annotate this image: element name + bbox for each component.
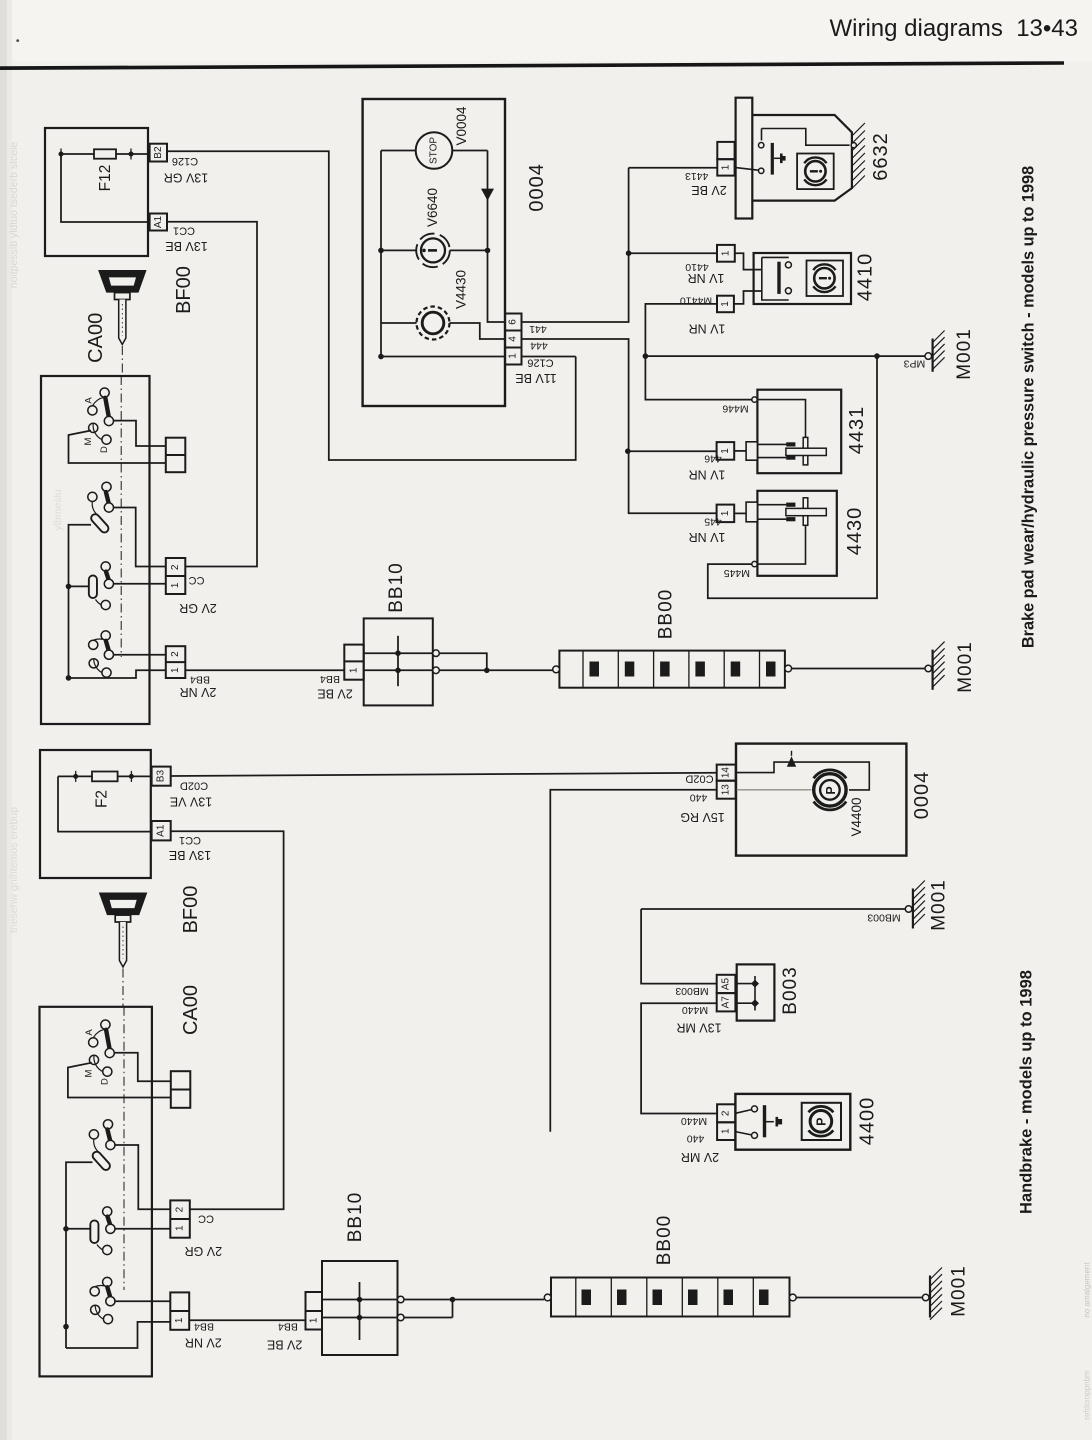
svg-text:Wiring diagrams 13•43: Wiring diagrams 13•43 [829, 15, 1078, 42]
net label BB4 / 2V BE [317, 673, 352, 701]
key axis dash-dot [121, 346, 122, 657]
svg-text:1: 1 [720, 250, 731, 256]
svg-text:444: 444 [530, 339, 548, 351]
stop-lamp switch 6632 [735, 98, 852, 219]
svg-text:C126: C126 [527, 357, 553, 369]
wire 6632 to junction (4413 2V BE) [629, 167, 718, 169]
svg-text:2: 2 [170, 651, 181, 657]
connector BB4 on CA00 bottom [170, 1292, 189, 1329]
net label M4410 / 1V NR [680, 294, 726, 335]
header rule [0, 61, 1064, 70]
svg-text:CC: CC [198, 1212, 214, 1224]
svg-text:A1: A1 [156, 824, 167, 837]
handbrake switch 4400 [735, 1094, 878, 1150]
svg-text:M440: M440 [682, 1004, 708, 1016]
net label BB4 / 2V NR [180, 673, 217, 699]
diode [488, 151, 506, 323]
faint wire pin13 to lamp [736, 789, 812, 791]
connector pins 14/13 of 0004 (bottom) [717, 765, 736, 799]
wire A7 down to 4400 pin2 (M440) [641, 1003, 717, 1113]
svg-text:C02D: C02D [180, 780, 208, 792]
contact wafer 1 [83, 388, 114, 453]
wire pin4 down to pad sensors (444) [522, 339, 629, 513]
wire pin6 to 6632 (441) [522, 168, 629, 322]
bottom internal wire to pin 1 [381, 356, 505, 358]
svg-text:F2: F2 [94, 790, 111, 808]
svg-text:6632: 6632 [870, 132, 892, 181]
svg-text:D: D [100, 1078, 111, 1085]
svg-text:0004: 0004 [911, 771, 933, 820]
svg-text:MP3: MP3 [904, 357, 926, 369]
svg-text:BB4: BB4 [320, 673, 340, 685]
net label 445 / 1V NR [689, 515, 726, 544]
svg-text:A5: A5 [721, 977, 732, 990]
net label C02D / 13V VE [170, 780, 212, 809]
svg-text:M001: M001 [949, 1265, 970, 1317]
svg-text:4430: 4430 [844, 507, 866, 556]
svg-text:0004: 0004 [526, 163, 548, 212]
internal bus [380, 151, 382, 357]
svg-text:A: A [84, 1029, 95, 1036]
ignition switch CA00 (top) [41, 376, 166, 724]
svg-text:CC1: CC1 [173, 225, 195, 237]
fuse box F12 [45, 128, 150, 256]
svg-text:Handbrake - models up to 1998: Handbrake - models up to 1998 [1018, 970, 1036, 1214]
svg-text:14: 14 [721, 767, 732, 779]
svg-text:M446: M446 [722, 403, 748, 415]
ground M001 (top right, lower) [925, 641, 976, 693]
svg-text:2V GR: 2V GR [185, 1244, 223, 1258]
connector pins 2/1 of 4400 [717, 1104, 735, 1140]
svg-text:CA00: CA00 [85, 313, 107, 363]
connector pin A1 of F12 [150, 214, 167, 231]
svg-text:M001: M001 [954, 328, 975, 380]
contact wafer 4 [90, 1277, 115, 1323]
svg-text:2: 2 [175, 1206, 186, 1212]
svg-text:BB4: BB4 [194, 1321, 214, 1333]
wire pin1 (C126 11V BE) [522, 356, 576, 358]
svg-text:C02D: C02D [685, 772, 713, 784]
svg-text:13V MR: 13V MR [676, 1021, 721, 1035]
svg-text:A1: A1 [153, 215, 164, 228]
wafer4 wires [114, 654, 166, 656]
svg-text:1: 1 [170, 582, 181, 588]
svg-text:13V BE: 13V BE [169, 848, 211, 862]
net label BB4 / 2V NR (bottom) [185, 1321, 222, 1350]
contact wafer 3 [93, 562, 114, 610]
wire BB4 from CA00 to BB10 (2V BE) [185, 669, 344, 671]
svg-text:M440: M440 [681, 1115, 707, 1127]
svg-text:CC1: CC1 [179, 834, 201, 846]
svg-text:1: 1 [174, 1317, 185, 1323]
junction box BB10 (bottom) [306, 1192, 405, 1355]
wire M446 [645, 356, 751, 400]
svg-text:2V MR: 2V MR [681, 1150, 719, 1164]
svg-text:1V NR: 1V NR [689, 530, 726, 544]
net labels C02D / 440 / 15V RG [680, 772, 724, 824]
contact wafer 2 [88, 482, 114, 528]
net labels M440 / 440 / 2V MR [681, 1115, 719, 1164]
connector pin B3 of F2 [152, 767, 171, 786]
svg-text:P: P [815, 1118, 829, 1126]
svg-text:tnesehw gnihtemos erebup: tnesehw gnihtemos erebup [8, 807, 20, 933]
wire junction to 4410 [629, 252, 717, 254]
svg-text:BB4: BB4 [278, 1320, 298, 1332]
net label 4410 / 1V NR [685, 261, 724, 285]
wafer3 wire [114, 1228, 170, 1230]
svg-text:B003: B003 [780, 966, 801, 1014]
svg-text:A: A [83, 397, 94, 404]
wafer2 wire to CC [114, 508, 166, 567]
instrument cluster 0004 (bottom) [736, 744, 933, 856]
svg-text:CC: CC [189, 574, 205, 586]
svg-text:1: 1 [349, 667, 360, 673]
svg-text:1V NR: 1V NR [689, 321, 726, 335]
warning lamp V4430 [381, 322, 417, 324]
svg-text:B2: B2 [153, 146, 164, 159]
svg-text:M001: M001 [928, 879, 949, 931]
net label CC / 2V GR [179, 574, 217, 615]
junction strip BB00 (top) [553, 589, 792, 688]
connector (unlabelled) on CA00 [166, 438, 186, 473]
svg-text:2: 2 [721, 1110, 732, 1116]
svg-text:1: 1 [308, 1317, 319, 1323]
svg-text:M: M [83, 437, 94, 445]
lamp V0004 (STOP) [416, 132, 453, 169]
wire A1 to ignition switch CC (13V BE) [167, 222, 257, 567]
internal wire with diode to V4400 [736, 762, 870, 790]
svg-text:1: 1 [720, 301, 731, 307]
svg-text:refdcroppnbm: refdcroppnbm [1083, 1370, 1092, 1420]
wire BB10 to BB00 (bottom) [404, 1299, 544, 1301]
connector B003 [717, 964, 801, 1020]
svg-text:C126: C126 [172, 155, 198, 167]
ignition key BF00 (bottom) [99, 893, 148, 968]
contact wafer 2 [89, 1120, 115, 1166]
contact wafer 4 [89, 631, 114, 677]
svg-text:D: D [99, 446, 110, 453]
svg-text:2V BE: 2V BE [267, 1338, 302, 1352]
svg-text:V4400: V4400 [849, 797, 864, 836]
svg-text:M001: M001 [955, 641, 976, 693]
svg-text:P: P [824, 786, 838, 794]
wire pin13 to 4400 pin1 (440 15V RG) [550, 790, 716, 1132]
svg-text:15V RG: 15V RG [680, 810, 724, 824]
svg-text:BF00: BF00 [173, 266, 195, 314]
svg-text:no amalgement: no amalgement [1083, 1262, 1092, 1318]
fuse box F2 [40, 750, 152, 878]
connector BB4 on CA00 [166, 646, 186, 678]
net label CC / 2V GR (bottom) [185, 1212, 223, 1258]
svg-text:440: 440 [690, 792, 708, 804]
svg-text:1V NR: 1V NR [689, 468, 726, 482]
connector pin 446 of 4431 [717, 442, 735, 460]
svg-text:4413: 4413 [685, 170, 709, 182]
wire BB10 to BB00 (top) [439, 653, 487, 670]
warning lamp V6640 [381, 249, 416, 251]
ground M001 (MB003) [905, 879, 949, 931]
wire B2 to 0004 pin 1 (13V GR) [167, 151, 576, 460]
wire to ground MB003 [641, 908, 905, 910]
wafer1 wires to connector [114, 1053, 171, 1081]
internal bus wire [69, 525, 92, 678]
connector pin 445 of 4430 [717, 505, 735, 522]
internal bus wire [66, 1162, 93, 1348]
ignition switch CA00 (bottom) [40, 1007, 171, 1377]
connector (unlabelled) on CA00 bottom [171, 1071, 191, 1108]
svg-text:1: 1 [175, 1225, 186, 1231]
ground M001 (top right, upper) [925, 328, 975, 380]
wire B3 to 0004 pin 14 (C02D) [171, 773, 717, 776]
wire BB00 to ground M001 (bottom) [796, 1297, 922, 1299]
svg-text:MB003: MB003 [675, 985, 708, 997]
net label BB4 / 2V BE (bottom) [267, 1320, 302, 1351]
svg-text:V4430: V4430 [454, 270, 469, 309]
junction strip BB00 (bottom) [544, 1215, 796, 1317]
connector pin M4410 (bottom) [717, 296, 734, 313]
svg-text:V6640: V6640 [425, 188, 440, 227]
chassis attachment of 6632 [851, 123, 865, 189]
svg-text:4: 4 [508, 336, 519, 342]
svg-text:1: 1 [720, 164, 731, 170]
net labels 441 / 444 / C126 / 11V BE [515, 323, 556, 385]
svg-text:1: 1 [508, 353, 519, 359]
connector CC on CA00 bottom [170, 1200, 190, 1237]
wafer4 wires [114, 1300, 170, 1302]
svg-text:2V BE: 2V BE [691, 183, 726, 197]
svg-text:13V BE: 13V BE [165, 239, 207, 253]
wire M4410 to ground bus [645, 304, 717, 356]
svg-text:ylbmeslu: ylbmeslu [52, 489, 64, 531]
wafer3 wire [114, 583, 166, 585]
svg-text:440: 440 [687, 1133, 705, 1145]
wire M445 return to ground bus [708, 356, 877, 598]
svg-text:4400: 4400 [857, 1097, 879, 1146]
pad wear sensor 4431 [746, 390, 868, 474]
svg-text:1V NR: 1V NR [688, 271, 725, 285]
svg-text:6: 6 [508, 319, 519, 325]
wire 445 [628, 512, 717, 514]
svg-text:A7: A7 [721, 996, 732, 1009]
svg-text:CA00: CA00 [180, 985, 202, 1035]
connector pin B2 of F12 [150, 144, 167, 162]
net labels MB003 / M440 / 13V MR [675, 985, 721, 1035]
svg-text:B3: B3 [156, 770, 167, 783]
pad wear sensor 4430 [746, 491, 866, 576]
svg-text:445: 445 [704, 515, 722, 527]
svg-text:2V NR: 2V NR [185, 1336, 222, 1350]
wire ground bus down to B003 A5 [641, 909, 717, 984]
svg-text:11V BE: 11V BE [515, 371, 556, 385]
connector pin of 6632 [717, 142, 734, 176]
svg-text:BB00: BB00 [654, 1215, 675, 1265]
svg-text:STOP: STOP [429, 137, 440, 164]
contact wafer 1 [84, 1020, 115, 1085]
svg-text:2V BE: 2V BE [317, 687, 352, 701]
ground bus wire MP3 to M001 [645, 355, 924, 357]
svg-text:1: 1 [720, 510, 731, 516]
svg-text:Brake pad wear/hydraulic press: Brake pad wear/hydraulic pressure switch… [1020, 166, 1038, 648]
wire A1 to ignition switch CC (13V BE, bottom) [171, 831, 284, 1209]
svg-text:446: 446 [704, 452, 722, 464]
connector pins 6/4/1 of 0004 [505, 314, 522, 365]
ignition key BF00 (top) [98, 270, 147, 345]
svg-text:13V VE: 13V VE [170, 795, 212, 809]
instrument cluster 0004 (top) [363, 99, 548, 406]
svg-text:BF00: BF00 [180, 886, 202, 934]
wire 446 [628, 450, 717, 452]
svg-text:13: 13 [721, 784, 732, 796]
svg-text:BB00: BB00 [656, 589, 677, 639]
svg-text:2V NR: 2V NR [180, 685, 217, 699]
svg-text:BB10: BB10 [345, 1192, 366, 1242]
svg-text:2V GR: 2V GR [179, 601, 217, 615]
brake fluid switch 4410 [754, 253, 851, 304]
svg-text:2: 2 [170, 564, 181, 570]
net label CC1 / 13V BE [165, 225, 207, 254]
wire BB4 to BB10 (bottom, 2V BE) [189, 1319, 305, 1321]
net label CC1 / 13V BE [169, 834, 211, 862]
ground M001 (bottom) [922, 1265, 969, 1319]
svg-text:BB4: BB4 [190, 673, 210, 685]
svg-text:noitpessib yldtuo tsederb stce: noitpessib yldtuo tsederb stceie [8, 142, 20, 289]
junction box BB10 (top) [344, 562, 439, 705]
contact wafer 3 [94, 1207, 115, 1255]
connector CC on CA00 [166, 558, 186, 594]
svg-text:4410: 4410 [855, 253, 877, 302]
connector pin 4410 (top) [717, 245, 735, 262]
svg-text:V0004: V0004 [454, 106, 469, 146]
wafer2 wire to CC [114, 1145, 170, 1209]
net label C126 / 13V GR [164, 155, 208, 185]
handbrake warning lamp V4400 [814, 774, 846, 806]
key axis dash-dot (bottom) [123, 969, 124, 1291]
svg-text:MB003: MB003 [867, 912, 900, 924]
net label 446 / 1V NR [689, 452, 726, 481]
svg-text:1: 1 [721, 1128, 732, 1134]
svg-text:4431: 4431 [846, 406, 868, 455]
svg-text:1: 1 [170, 667, 181, 673]
svg-text:F12: F12 [97, 165, 114, 192]
svg-text:13V GR: 13V GR [164, 171, 208, 185]
svg-text:M445: M445 [724, 567, 750, 579]
svg-text:M: M [84, 1069, 95, 1077]
net label 4413 / 2V BE [685, 170, 727, 197]
svg-text:441: 441 [529, 323, 547, 335]
wafer1 wires to connector [114, 421, 166, 446]
wire BB00 to ground M001 (top) [792, 668, 925, 670]
svg-text:BB10: BB10 [386, 562, 407, 612]
connector pin A1 of F2 [152, 821, 171, 840]
